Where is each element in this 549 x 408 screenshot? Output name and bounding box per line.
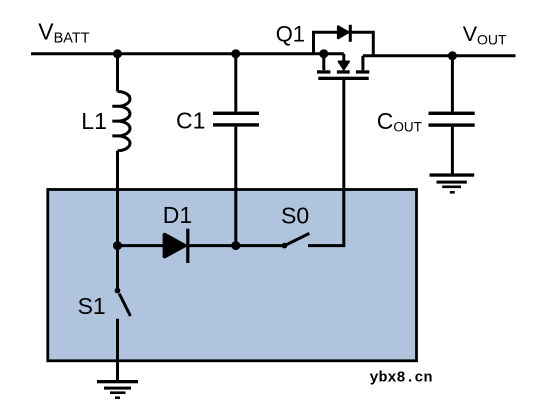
node L1 top junction [113,49,122,58]
Q1 source stub [322,54,325,71]
Q1 body diode loop wire [314,32,374,56]
svg-text:S1: S1 [78,293,106,319]
diode D1 [165,235,185,257]
svg-text:L1: L1 [81,108,107,134]
svg-text:S0: S0 [281,202,309,228]
Q1 channel contact bars [317,70,330,73]
wire L1 bottom lead into box [116,151,119,246]
svg-text:Q1: Q1 [276,21,305,46]
node C1 bottom junction [231,241,240,250]
node D1 anode junction [113,241,122,250]
node VOUT junction [448,51,457,60]
wire top-left VBATT rail [31,52,344,55]
Q1 gate bar [318,77,368,80]
capacitor COUT [451,56,454,112]
svg-text:D1: D1 [163,202,192,228]
Q1 drain stub [361,56,364,71]
svg-text:C1: C1 [176,108,205,134]
switch S0 [282,243,288,249]
control block box [48,190,417,361]
ground COUT [430,173,475,176]
wire top-right VOUT rail [363,54,516,57]
node C1 top junction [231,49,240,58]
ground S1 [97,380,138,383]
capacitor C1 [234,54,237,112]
Q1 body stub with arrow [342,54,345,61]
Q1 body diode [338,27,348,38]
svg-text:ybx8.cn: ybx8.cn [370,370,433,387]
wire inside box D1 rail [118,244,285,247]
node Q1 source junction [319,49,328,58]
wire L1 top lead [116,54,119,92]
inductor L1 [112,92,130,151]
switch S1 [116,246,119,289]
